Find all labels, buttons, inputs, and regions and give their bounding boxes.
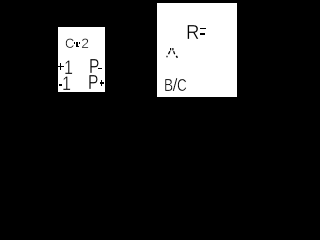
label B/C : letter B — [164, 77, 173, 95]
pin label P+ : plus sign — [100, 82, 105, 84]
label RF : letter R — [186, 23, 199, 43]
pin label P- : letter P — [89, 57, 99, 77]
pin label -1 : minus sign — [59, 84, 62, 86]
block D2 (right box body) — [157, 3, 237, 97]
label CT2 : letter C — [65, 36, 74, 50]
pin label +1 : plus sign — [58, 66, 64, 68]
pin label +1 : digit 1 — [64, 59, 73, 78]
pin label P+ : letter P — [88, 73, 98, 93]
pin label -1 : digit 1 — [62, 75, 71, 94]
label RF : F mid bar — [200, 33, 205, 35]
pin label P- : minus sign — [98, 68, 102, 70]
label CT2 : digit 2 — [81, 36, 89, 50]
counter D1 (CT2 block body) — [58, 27, 105, 92]
label B/C : slash — [173, 77, 178, 95]
label RF : F top bar — [200, 28, 206, 30]
label B/C : letter C — [177, 77, 187, 95]
label CT2 : vector glyph t (trident form) — [74, 42, 75, 44]
label lambda (dashed caret) — [165, 46, 179, 59]
